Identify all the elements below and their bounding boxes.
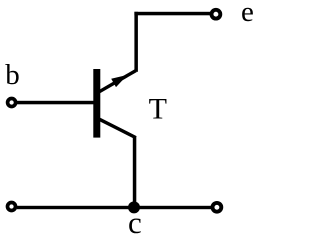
svg-text:T: T xyxy=(149,92,167,125)
wire bottom right xyxy=(134,206,212,209)
wire bottom left xyxy=(17,206,134,209)
junction c xyxy=(128,201,140,213)
terminal bottom-left xyxy=(8,203,16,211)
wire emitter vertical xyxy=(134,12,138,72)
wire base xyxy=(17,101,94,105)
terminal e xyxy=(212,10,221,19)
wire emitter horizontal xyxy=(134,12,211,16)
svg-text:b: b xyxy=(5,59,19,91)
transistor T xyxy=(93,69,136,138)
svg-text:e: e xyxy=(241,0,254,28)
terminal bottom-right xyxy=(213,203,222,212)
wire collector vertical xyxy=(133,136,137,208)
terminal b xyxy=(8,99,16,107)
svg-text:c: c xyxy=(128,205,142,236)
